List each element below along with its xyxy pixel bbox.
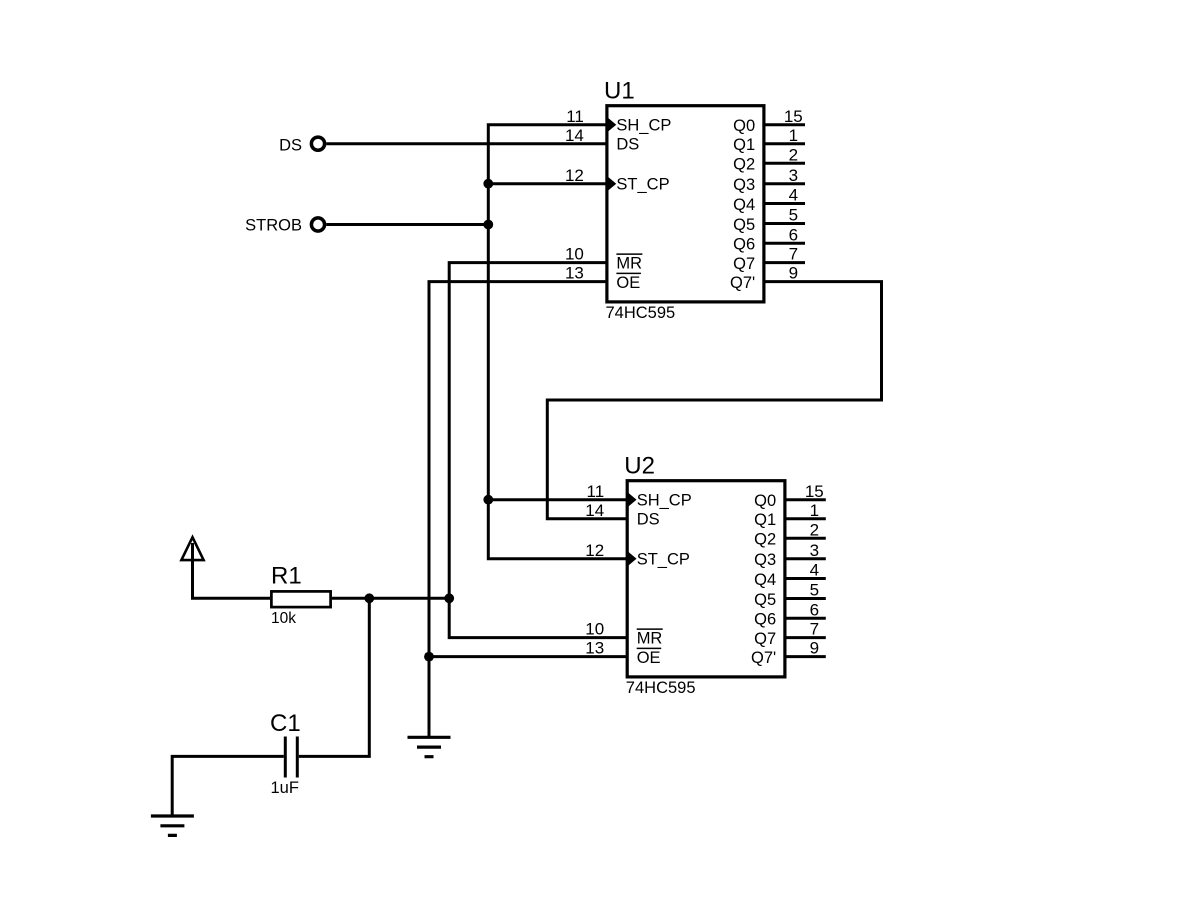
svg-text:Q5: Q5 [733,216,755,234]
svg-text:10: 10 [585,620,604,639]
svg-text:Q7: Q7 [754,630,776,648]
svg-text:5: 5 [810,581,819,600]
svg-text:Q6: Q6 [733,236,755,254]
svg-text:DS: DS [616,136,639,154]
svg-text:Q6: Q6 [754,611,776,629]
svg-text:4: 4 [810,561,819,580]
svg-text:SH_CP: SH_CP [637,492,692,510]
svg-text:OE: OE [616,274,640,292]
svg-text:1: 1 [789,126,798,145]
svg-text:13: 13 [565,264,584,283]
svg-text:14: 14 [585,501,604,520]
svg-text:4: 4 [789,186,798,205]
svg-text:12: 12 [585,541,604,560]
svg-text:Q4: Q4 [754,571,776,589]
svg-text:Q7': Q7' [751,649,776,667]
svg-text:U1: U1 [604,78,635,105]
svg-text:1: 1 [810,501,819,520]
svg-text:STROB: STROB [245,216,302,234]
svg-text:7: 7 [789,245,798,264]
svg-text:11: 11 [587,482,605,501]
svg-text:SH_CP: SH_CP [616,117,671,135]
svg-text:11: 11 [566,107,584,126]
svg-text:C1: C1 [270,710,301,737]
svg-text:13: 13 [585,639,604,658]
svg-text:1uF: 1uF [271,779,299,797]
svg-text:OE: OE [637,649,661,667]
svg-text:10k: 10k [271,610,296,627]
svg-text:7: 7 [810,620,819,639]
svg-text:5: 5 [789,206,798,225]
svg-text:15: 15 [805,482,824,501]
svg-text:Q5: Q5 [754,591,776,609]
svg-text:Q1: Q1 [754,511,776,529]
svg-text:ST_CP: ST_CP [637,551,690,569]
svg-text:Q2: Q2 [754,531,776,549]
svg-text:Q0: Q0 [733,117,755,135]
svg-text:DS: DS [637,511,660,529]
svg-text:MR: MR [637,630,663,648]
svg-text:3: 3 [810,541,819,560]
svg-text:DS: DS [279,137,302,155]
svg-text:3: 3 [789,166,798,185]
svg-text:10: 10 [565,245,584,264]
svg-text:Q3: Q3 [754,551,776,569]
svg-text:R1: R1 [271,563,302,590]
svg-text:Q0: Q0 [754,492,776,510]
svg-text:74HC595: 74HC595 [606,304,676,322]
svg-text:Q4: Q4 [733,196,755,214]
svg-text:Q2: Q2 [733,156,755,174]
svg-text:Q3: Q3 [733,176,755,194]
svg-text:14: 14 [565,126,584,145]
svg-text:6: 6 [810,600,819,619]
svg-text:ST_CP: ST_CP [616,176,669,194]
svg-text:15: 15 [784,107,803,126]
svg-text:9: 9 [810,639,819,658]
svg-text:Q7': Q7' [730,274,755,292]
svg-text:6: 6 [789,225,798,244]
svg-text:9: 9 [789,264,798,283]
svg-text:74HC595: 74HC595 [626,679,696,697]
svg-text:2: 2 [789,145,798,164]
svg-text:Q7: Q7 [733,255,755,273]
svg-text:MR: MR [616,255,642,273]
svg-text:12: 12 [565,166,584,185]
svg-text:2: 2 [810,520,819,539]
svg-text:Q1: Q1 [733,136,755,154]
svg-text:U2: U2 [624,453,655,480]
